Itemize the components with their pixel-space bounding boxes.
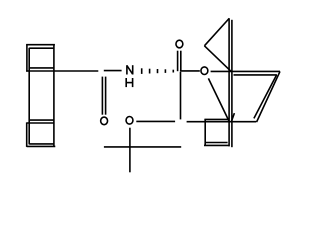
trapezoid right diagonal outer	[257, 71, 280, 122]
tBu O glyph	[126, 117, 133, 125]
acid C=O double bond line 2	[180, 51, 182, 71]
hashed stereo bond dash 1	[141, 68, 143, 74]
central double vertical line 2	[231, 20, 233, 147]
acid C=O double bond line 1	[177, 51, 179, 71]
left bicyclic: inner left vertical full	[28, 48, 30, 145]
amide C=O double bond line 1	[101, 77, 103, 115]
left bicyclic: top square outer left vertical	[26, 44, 28, 71]
ester O to ring bond + trapezoid top outer	[211, 70, 280, 72]
tBu vertical	[129, 128, 131, 173]
triangle upper edge	[204, 18, 229, 45]
chain CH2 vertical	[180, 72, 182, 120]
N glyph	[127, 65, 133, 74]
right square bottom outer	[204, 144, 229, 146]
ester O to CH2 diagonal	[208, 78, 229, 121]
amide C-N bond	[104, 70, 122, 72]
hashed stereo bond dash 5	[172, 70, 174, 73]
central double vertical line 1	[228, 18, 230, 146]
top square bottom inner	[29, 67, 54, 69]
H glyph	[126, 78, 132, 87]
amide C=O double bond line 2	[105, 77, 107, 115]
hashed stereo bond dash 4	[164, 69, 166, 73]
left bicyclic: right vertical full	[53, 44, 55, 146]
acid O glyph	[176, 40, 183, 48]
junction tick	[232, 113, 235, 121]
right square bottom inner	[206, 142, 228, 144]
bottom square top inner	[29, 119, 54, 121]
left bicyclic: bottom square outer left vertical	[26, 122, 28, 146]
right square left vertical	[204, 119, 206, 146]
bottom square top outer	[27, 122, 55, 124]
hashed stereo bond dash 2	[149, 69, 151, 74]
trapezoid right diagonal inner	[254, 75, 277, 119]
trapezoid top inner	[234, 74, 277, 76]
top square bottom outer + chain bond to amide C	[26, 70, 98, 72]
right square top outer	[204, 118, 229, 120]
hashed stereo bond dash 3	[157, 69, 159, 73]
bottom square bottom inner	[29, 143, 54, 145]
triangle lower edge	[204, 46, 231, 72]
stereo C to ester O bond	[180, 70, 200, 72]
bottom square bottom outer	[27, 145, 56, 147]
tBu-O to CH2 bond	[136, 120, 175, 122]
ester O glyph	[201, 67, 208, 75]
tBu horizontal	[104, 146, 181, 148]
amide O glyph	[101, 117, 108, 125]
top square top inner	[29, 47, 54, 49]
top square top outer	[26, 44, 55, 46]
CH2 to square long bond	[187, 121, 257, 123]
